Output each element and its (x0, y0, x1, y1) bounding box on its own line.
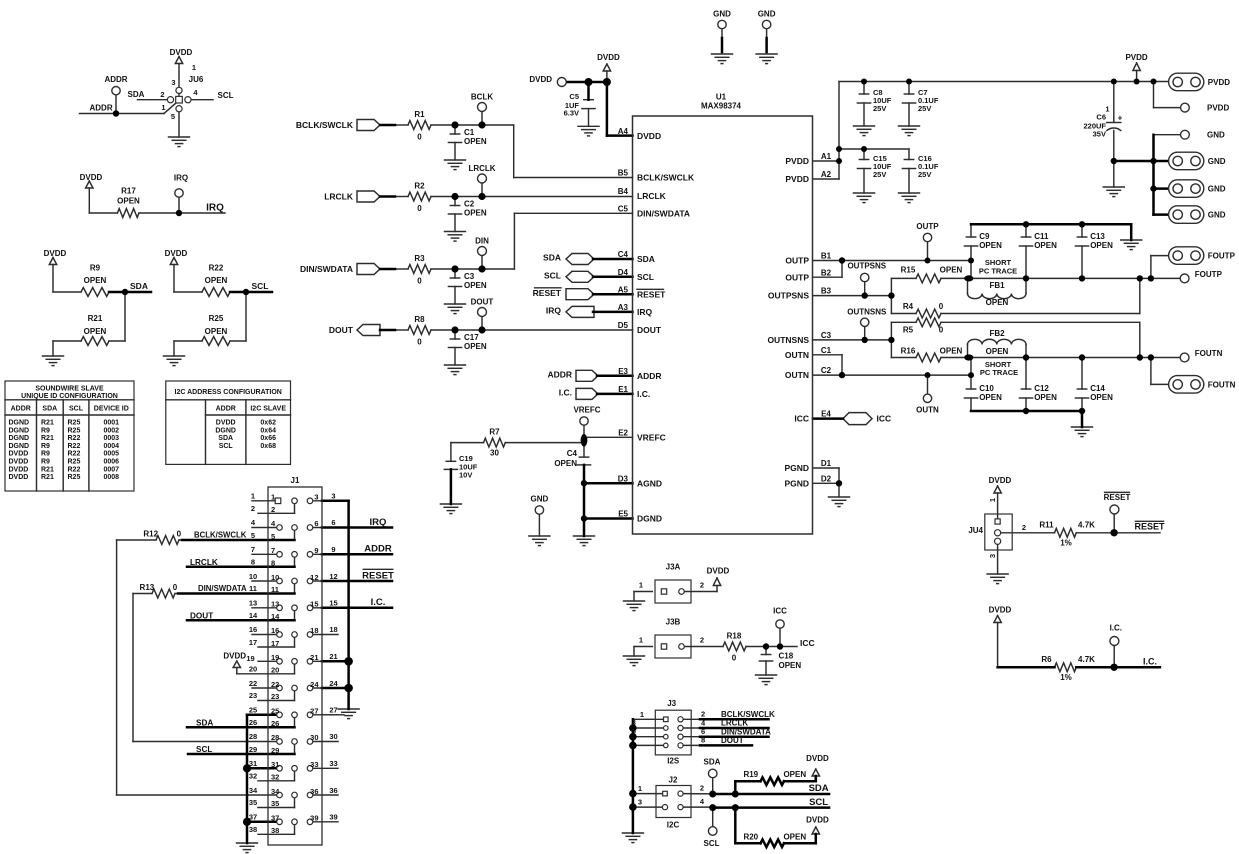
svg-text:PVDD: PVDD (1207, 104, 1229, 113)
svg-text:0: 0 (417, 337, 422, 346)
svg-text:SCL: SCL (196, 745, 212, 754)
svg-text:DVDD: DVDD (707, 566, 730, 575)
svg-text:DGND: DGND (637, 514, 662, 524)
svg-text:28: 28 (249, 732, 257, 741)
svg-text:38: 38 (271, 826, 279, 835)
svg-text:16: 16 (249, 625, 257, 634)
svg-text:1%: 1% (1060, 538, 1072, 547)
svg-text:7: 7 (251, 545, 255, 554)
svg-text:I.C.: I.C. (1143, 657, 1157, 667)
svg-text:DEVICE ID: DEVICE ID (94, 406, 129, 413)
svg-text:14: 14 (271, 612, 280, 621)
svg-text:8: 8 (271, 559, 275, 568)
svg-text:PVDD: PVDD (1125, 53, 1147, 62)
svg-text:11: 11 (271, 585, 279, 594)
svg-text:OPEN: OPEN (464, 281, 487, 290)
svg-text:OUTN: OUTN (785, 370, 809, 380)
svg-text:0x66: 0x66 (260, 435, 276, 442)
svg-text:FOUTP: FOUTP (1208, 252, 1236, 261)
svg-text:21: 21 (310, 653, 318, 662)
svg-text:R9: R9 (41, 451, 50, 458)
svg-text:DIN/SWDATA: DIN/SWDATA (637, 209, 690, 219)
svg-text:0007: 0007 (104, 466, 120, 473)
svg-text:R25: R25 (209, 314, 224, 323)
svg-text:OPEN: OPEN (84, 276, 107, 285)
svg-text:34: 34 (271, 787, 280, 796)
svg-text:R15: R15 (901, 265, 916, 274)
svg-text:24: 24 (329, 679, 338, 688)
svg-text:SOUNDWIRE SLAVE: SOUNDWIRE SLAVE (35, 386, 104, 393)
svg-text:LRCLK: LRCLK (190, 558, 218, 567)
svg-text:GND: GND (713, 9, 731, 18)
svg-text:D1: D1 (821, 459, 832, 468)
svg-text:ADDR: ADDR (11, 406, 31, 413)
svg-text:B2: B2 (821, 268, 832, 277)
svg-text:18: 18 (329, 625, 337, 634)
svg-text:OUTNSNS: OUTNSNS (767, 335, 809, 345)
svg-text:33: 33 (310, 760, 318, 769)
svg-text:24: 24 (310, 680, 319, 689)
svg-text:R4: R4 (903, 302, 914, 311)
svg-text:OPEN: OPEN (1034, 393, 1057, 402)
svg-text:2: 2 (271, 505, 275, 514)
svg-text:GND: GND (758, 9, 776, 18)
svg-text:0: 0 (417, 204, 422, 213)
svg-text:C4: C4 (618, 250, 629, 259)
svg-text:SCL: SCL (69, 406, 84, 413)
svg-text:BCLK/SWCLK: BCLK/SWCLK (637, 173, 695, 183)
svg-text:10: 10 (271, 573, 279, 582)
svg-text:UNIQUE ID CONFIGURATION: UNIQUE ID CONFIGURATION (21, 393, 118, 400)
svg-text:20: 20 (271, 666, 279, 675)
svg-text:DVDD: DVDD (9, 459, 29, 466)
svg-text:A4: A4 (618, 127, 629, 136)
svg-text:37: 37 (271, 814, 279, 823)
svg-text:17: 17 (249, 638, 257, 647)
svg-text:SDA: SDA (42, 406, 57, 413)
svg-text:E2: E2 (618, 428, 628, 437)
svg-text:DVDD: DVDD (637, 131, 661, 141)
svg-text:LRCLK: LRCLK (468, 164, 495, 173)
svg-text:1: 1 (271, 493, 275, 502)
svg-text:OUTNSNS: OUTNSNS (847, 307, 887, 316)
svg-text:I.C.: I.C. (637, 389, 650, 399)
svg-text:OUTP: OUTP (785, 256, 809, 266)
svg-text:7: 7 (632, 735, 636, 744)
svg-text:E4: E4 (821, 410, 831, 419)
svg-text:8: 8 (701, 736, 705, 745)
svg-text:R22: R22 (68, 443, 81, 450)
svg-text:DOUT: DOUT (471, 297, 494, 306)
svg-text:A2: A2 (821, 170, 832, 179)
svg-text:22: 22 (249, 679, 257, 688)
svg-text:DGND: DGND (9, 443, 30, 450)
svg-text:20: 20 (249, 665, 257, 674)
svg-text:OPEN: OPEN (979, 241, 1002, 250)
svg-text:DVDD: DVDD (44, 249, 67, 258)
svg-text:0: 0 (417, 276, 422, 285)
svg-text:D4: D4 (618, 268, 629, 277)
svg-text:OUTPSNS: OUTPSNS (847, 262, 886, 271)
svg-text:J2: J2 (669, 775, 678, 784)
svg-text:ICC: ICC (800, 638, 815, 648)
svg-text:39: 39 (310, 814, 318, 823)
svg-text:OUTN: OUTN (916, 405, 939, 414)
svg-text:FOUTN: FOUTN (1208, 380, 1236, 389)
svg-text:2: 2 (701, 710, 705, 719)
svg-text:LRCLK: LRCLK (721, 719, 748, 728)
svg-text:30: 30 (490, 449, 499, 458)
svg-text:IRQ: IRQ (370, 517, 387, 528)
svg-text:BCLK/SWCLK: BCLK/SWCLK (721, 710, 775, 719)
svg-text:0: 0 (732, 653, 737, 662)
svg-text:DIN: DIN (475, 236, 489, 245)
svg-text:0x62: 0x62 (260, 420, 276, 427)
svg-text:4.7K: 4.7K (1078, 520, 1095, 529)
svg-text:1: 1 (640, 710, 644, 719)
svg-text:DVDD: DVDD (223, 651, 246, 660)
svg-text:3: 3 (171, 78, 175, 87)
svg-text:DIN/SWDATA: DIN/SWDATA (721, 727, 771, 736)
svg-text:6.3V: 6.3V (564, 108, 579, 117)
svg-text:0003: 0003 (104, 435, 120, 442)
svg-text:R2: R2 (414, 181, 425, 190)
svg-text:I.C.: I.C. (371, 597, 386, 608)
svg-text:0x64: 0x64 (260, 427, 276, 434)
svg-text:B4: B4 (618, 187, 629, 196)
svg-text:DVDD: DVDD (597, 53, 620, 62)
svg-text:VREFC: VREFC (637, 432, 666, 442)
svg-text:18: 18 (310, 626, 318, 635)
svg-text:U1: U1 (716, 92, 727, 101)
svg-text:0001: 0001 (104, 420, 120, 427)
svg-text:C5: C5 (618, 205, 629, 214)
svg-text:DVDD: DVDD (80, 173, 103, 182)
svg-text:DVDD: DVDD (165, 249, 188, 258)
svg-text:OPEN: OPEN (940, 346, 963, 355)
svg-text:DVDD: DVDD (9, 451, 29, 458)
svg-text:1: 1 (192, 63, 196, 72)
svg-text:30: 30 (329, 732, 337, 741)
svg-text:RESET: RESET (1134, 522, 1165, 532)
svg-text:E5: E5 (618, 510, 628, 519)
svg-text:ADDR: ADDR (104, 75, 127, 84)
svg-text:6: 6 (701, 727, 705, 736)
svg-text:R7: R7 (489, 427, 500, 436)
svg-text:OPEN: OPEN (783, 770, 806, 779)
svg-text:DVDD: DVDD (806, 754, 829, 763)
svg-text:C6: C6 (1096, 113, 1106, 122)
svg-text:B1: B1 (821, 252, 832, 261)
svg-text:0: 0 (939, 326, 944, 335)
svg-text:38: 38 (249, 825, 257, 834)
svg-text:R21: R21 (41, 435, 54, 442)
svg-text:+: + (1118, 113, 1123, 122)
svg-text:19: 19 (246, 654, 254, 663)
svg-text:11: 11 (249, 584, 257, 593)
svg-text:ADDR: ADDR (547, 369, 572, 379)
svg-text:SCL: SCL (704, 839, 720, 848)
svg-text:J3B: J3B (666, 617, 681, 626)
svg-text:25V: 25V (918, 104, 931, 113)
svg-text:GND: GND (531, 494, 549, 503)
svg-text:C9: C9 (979, 232, 990, 241)
svg-text:1%: 1% (1060, 673, 1072, 682)
svg-text:MAX98374: MAX98374 (701, 101, 742, 110)
svg-text:SCL: SCL (809, 797, 828, 808)
svg-text:2: 2 (700, 636, 704, 645)
svg-text:I2C ADDRESS CONFIGURATION: I2C ADDRESS CONFIGURATION (175, 389, 282, 396)
svg-text:R25: R25 (68, 459, 81, 466)
svg-text:DOUT: DOUT (190, 611, 213, 620)
svg-text:RESET: RESET (637, 289, 666, 299)
svg-text:25V: 25V (918, 170, 931, 179)
svg-text:DGND: DGND (9, 420, 30, 427)
svg-text:2: 2 (700, 784, 704, 793)
svg-text:C17: C17 (464, 333, 479, 342)
svg-text:OUTPSNS: OUTPSNS (768, 291, 809, 301)
svg-text:I2S: I2S (667, 757, 680, 766)
svg-text:35: 35 (271, 799, 279, 808)
svg-text:31: 31 (271, 760, 279, 769)
svg-text:R13: R13 (140, 583, 155, 592)
svg-text:DVDD: DVDD (9, 474, 29, 481)
svg-text:R22: R22 (68, 435, 81, 442)
svg-text:PC TRACE: PC TRACE (979, 267, 1017, 276)
svg-text:R19: R19 (743, 770, 758, 779)
svg-text:D3: D3 (618, 474, 629, 483)
svg-text:0008: 0008 (104, 474, 120, 481)
svg-text:36: 36 (310, 787, 318, 796)
svg-text:C2: C2 (821, 366, 832, 375)
svg-text:PGND: PGND (784, 478, 809, 488)
svg-text:R9: R9 (41, 459, 50, 466)
svg-text:1: 1 (251, 492, 255, 501)
svg-text:13: 13 (249, 599, 257, 608)
svg-text:I2C SLAVE: I2C SLAVE (250, 406, 286, 413)
svg-text:OPEN: OPEN (84, 327, 107, 336)
svg-text:PGND: PGND (784, 463, 809, 473)
svg-text:R18: R18 (727, 631, 742, 640)
svg-text:R22: R22 (209, 263, 224, 272)
svg-text:BCLK/SWCLK: BCLK/SWCLK (296, 120, 354, 130)
svg-text:A1: A1 (821, 152, 832, 161)
svg-text:R21: R21 (41, 420, 54, 427)
svg-text:22: 22 (271, 680, 279, 689)
svg-text:9: 9 (331, 545, 335, 554)
svg-text:DGND: DGND (9, 427, 30, 434)
svg-text:C13: C13 (1090, 232, 1105, 241)
svg-text:IRQ: IRQ (637, 307, 653, 317)
svg-text:DIN/SWDATA: DIN/SWDATA (198, 584, 247, 593)
svg-text:C11: C11 (1034, 232, 1049, 241)
svg-text:10V: 10V (459, 471, 472, 480)
svg-text:3: 3 (331, 492, 335, 501)
svg-text:C1: C1 (821, 346, 832, 355)
svg-text:LRCLK: LRCLK (324, 192, 354, 202)
svg-text:R8: R8 (414, 315, 425, 324)
svg-text:C3: C3 (821, 331, 832, 340)
svg-text:0: 0 (173, 583, 178, 592)
svg-text:OUTP: OUTP (785, 272, 809, 282)
svg-text:I.C.: I.C. (559, 388, 572, 398)
svg-text:R22: R22 (68, 451, 81, 458)
svg-text:34: 34 (249, 786, 258, 795)
svg-text:1: 1 (161, 103, 165, 112)
svg-text:OPEN: OPEN (986, 298, 1009, 307)
svg-text:IRQ: IRQ (174, 173, 188, 182)
svg-text:0x68: 0x68 (260, 443, 276, 450)
svg-text:GND: GND (1207, 131, 1225, 140)
svg-text:23: 23 (249, 691, 257, 700)
svg-text:OPEN: OPEN (940, 265, 963, 274)
svg-text:C4: C4 (567, 449, 578, 458)
svg-text:0002: 0002 (104, 427, 120, 434)
svg-text:AGND: AGND (637, 478, 662, 488)
svg-text:2: 2 (160, 90, 164, 99)
svg-text:SDA: SDA (809, 783, 829, 794)
svg-text:25: 25 (249, 706, 257, 715)
svg-text:SDA: SDA (218, 435, 233, 442)
svg-text:1: 1 (639, 581, 643, 590)
svg-text:ADDR: ADDR (216, 406, 236, 413)
svg-text:R3: R3 (414, 254, 425, 263)
svg-text:15: 15 (310, 600, 318, 609)
svg-text:C3: C3 (464, 272, 475, 281)
svg-text:A5: A5 (618, 285, 629, 294)
svg-text:ICC: ICC (877, 414, 892, 424)
svg-text:OPEN: OPEN (1034, 241, 1057, 250)
svg-text:I2C: I2C (667, 820, 680, 829)
svg-text:25V: 25V (873, 104, 886, 113)
svg-text:0: 0 (939, 302, 944, 311)
svg-text:C1: C1 (464, 128, 475, 137)
svg-text:OUTN: OUTN (785, 350, 809, 360)
svg-text:R5: R5 (903, 326, 914, 335)
svg-text:R16: R16 (901, 346, 916, 355)
svg-text:5: 5 (251, 531, 255, 540)
svg-text:FB2: FB2 (989, 329, 1005, 338)
svg-text:R11: R11 (1039, 520, 1054, 529)
svg-text:B3: B3 (821, 287, 832, 296)
svg-text:0005: 0005 (104, 451, 120, 458)
svg-text:RESET: RESET (362, 570, 394, 581)
svg-text:ADDR: ADDR (364, 544, 392, 555)
svg-text:IRQ: IRQ (206, 203, 224, 214)
svg-text:PVDD: PVDD (785, 156, 809, 166)
svg-text:15: 15 (329, 599, 337, 608)
svg-text:E1: E1 (618, 385, 628, 394)
svg-text:I.C.: I.C. (1110, 623, 1122, 632)
svg-text:C5: C5 (569, 92, 579, 101)
svg-text:DGND: DGND (9, 435, 30, 442)
svg-text:DOUT: DOUT (329, 325, 354, 335)
svg-text:SDA: SDA (704, 757, 721, 766)
svg-text:10: 10 (249, 572, 257, 581)
svg-text:DGND: DGND (215, 427, 236, 434)
svg-text:SCL: SCL (218, 91, 234, 100)
svg-text:OPEN: OPEN (205, 327, 228, 336)
svg-text:SCL: SCL (637, 272, 654, 282)
svg-text:13: 13 (271, 600, 279, 609)
svg-text:FOUTP: FOUTP (1195, 270, 1223, 279)
svg-text:OPEN: OPEN (779, 661, 802, 670)
svg-text:R25: R25 (68, 427, 81, 434)
svg-text:12: 12 (329, 572, 337, 581)
svg-text:DVDD: DVDD (989, 476, 1012, 485)
svg-text:3: 3 (638, 797, 642, 806)
svg-text:VREFC: VREFC (573, 405, 600, 414)
svg-text:7: 7 (271, 546, 275, 555)
svg-text:32: 32 (249, 772, 257, 781)
svg-text:GND: GND (1208, 211, 1226, 220)
svg-text:DOUT: DOUT (637, 325, 662, 335)
svg-text:R22: R22 (68, 466, 81, 473)
svg-text:GND: GND (1208, 185, 1226, 194)
svg-text:OPEN: OPEN (464, 137, 487, 146)
svg-text:5: 5 (271, 532, 275, 541)
svg-text:3: 3 (314, 493, 318, 502)
svg-text:R9: R9 (41, 427, 50, 434)
svg-text:9: 9 (314, 546, 318, 555)
svg-text:1: 1 (639, 636, 643, 645)
svg-text:OPEN: OPEN (117, 196, 140, 205)
svg-text:A3: A3 (618, 303, 629, 312)
svg-text:0: 0 (417, 132, 422, 141)
svg-text:PC TRACE: PC TRACE (980, 368, 1018, 377)
svg-text:27: 27 (310, 707, 318, 716)
svg-text:OPEN: OPEN (464, 208, 487, 217)
svg-text:D2: D2 (821, 474, 832, 483)
svg-text:BCLK/SWCLK: BCLK/SWCLK (194, 530, 247, 539)
svg-text:1: 1 (1105, 105, 1109, 114)
svg-text:DVDD: DVDD (216, 420, 236, 427)
svg-text:36: 36 (329, 786, 337, 795)
svg-text:26: 26 (249, 718, 257, 727)
svg-text:OPEN: OPEN (1090, 393, 1113, 402)
svg-text:SCL: SCL (544, 270, 561, 280)
svg-text:0: 0 (177, 530, 182, 539)
svg-text:OUTP: OUTP (916, 222, 939, 231)
svg-text:R6: R6 (1041, 655, 1052, 664)
svg-text:OPEN: OPEN (986, 347, 1009, 356)
svg-text:35V: 35V (1093, 130, 1106, 139)
svg-text:0004: 0004 (104, 443, 120, 450)
svg-text:PVDD: PVDD (785, 174, 809, 184)
svg-text:DIN/SWDATA: DIN/SWDATA (300, 264, 353, 274)
svg-text:C12: C12 (1034, 384, 1049, 393)
svg-text:ADDR: ADDR (637, 371, 662, 381)
svg-text:4.7K: 4.7K (1078, 655, 1095, 664)
svg-text:C2: C2 (464, 199, 475, 208)
svg-text:SDA: SDA (130, 281, 148, 291)
svg-text:C10: C10 (979, 384, 994, 393)
svg-text:2: 2 (1022, 523, 1026, 532)
svg-text:29: 29 (271, 746, 279, 755)
svg-text:R17: R17 (121, 186, 136, 195)
svg-text:26: 26 (271, 719, 279, 728)
svg-text:25V: 25V (873, 170, 886, 179)
svg-text:27: 27 (329, 706, 337, 715)
svg-text:28: 28 (271, 733, 279, 742)
svg-text:OPEN: OPEN (783, 833, 806, 842)
svg-text:ADDR: ADDR (90, 104, 113, 113)
svg-text:OPEN: OPEN (1090, 241, 1113, 250)
svg-text:JU6: JU6 (189, 75, 204, 84)
svg-text:DOUT: DOUT (721, 736, 744, 745)
svg-text:SCL: SCL (252, 281, 269, 291)
svg-text:ICC: ICC (773, 606, 787, 615)
